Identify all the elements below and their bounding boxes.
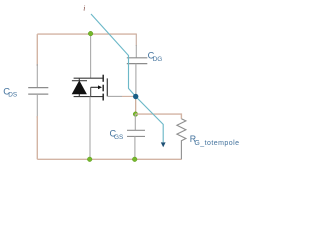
capacitor CGS xyxy=(127,130,145,136)
resistor RG_totempole xyxy=(177,119,186,160)
transistor Q1 body arrow xyxy=(91,86,99,88)
node source green dot xyxy=(87,157,92,162)
current arrowhead xyxy=(161,142,166,147)
wire left branch cap lead lower xyxy=(36,94,38,118)
wire top rail xyxy=(37,33,137,35)
transistor Q1 channel bar (dashed) xyxy=(102,75,104,101)
wire drain stub xyxy=(90,34,92,78)
node CGS bottom green dot xyxy=(132,157,137,162)
transistor Q1 body diode xyxy=(72,78,103,96)
wire CGS upper lead xyxy=(134,114,136,130)
current path arrow xyxy=(91,14,163,142)
capacitor CDG xyxy=(127,58,148,64)
wire gate lead tan part xyxy=(122,95,133,97)
svg-text:i: i xyxy=(83,4,85,13)
node drain green dot xyxy=(88,31,93,36)
transistor Q1 body-source link xyxy=(90,87,92,96)
diode triangle fill xyxy=(72,81,86,94)
capacitor CDS xyxy=(28,88,48,95)
wire left branch cap lead upper xyxy=(36,64,38,87)
node CGS green dot xyxy=(133,112,138,117)
wire gate lead xyxy=(107,95,122,97)
wire bottom rail xyxy=(37,158,181,160)
wire left branch lower xyxy=(36,116,38,159)
wire right branch upper xyxy=(135,34,137,46)
wire gate to CGS node xyxy=(135,97,137,115)
transistor Q1 gate bar xyxy=(106,78,108,96)
wire gate node to resistor xyxy=(136,114,182,119)
wire CDG lower lead xyxy=(135,64,137,95)
wire CGS lower lead xyxy=(134,136,136,159)
wire left branch upper xyxy=(36,34,38,66)
wire source stub xyxy=(89,97,91,160)
node gate blue dot xyxy=(133,94,138,99)
